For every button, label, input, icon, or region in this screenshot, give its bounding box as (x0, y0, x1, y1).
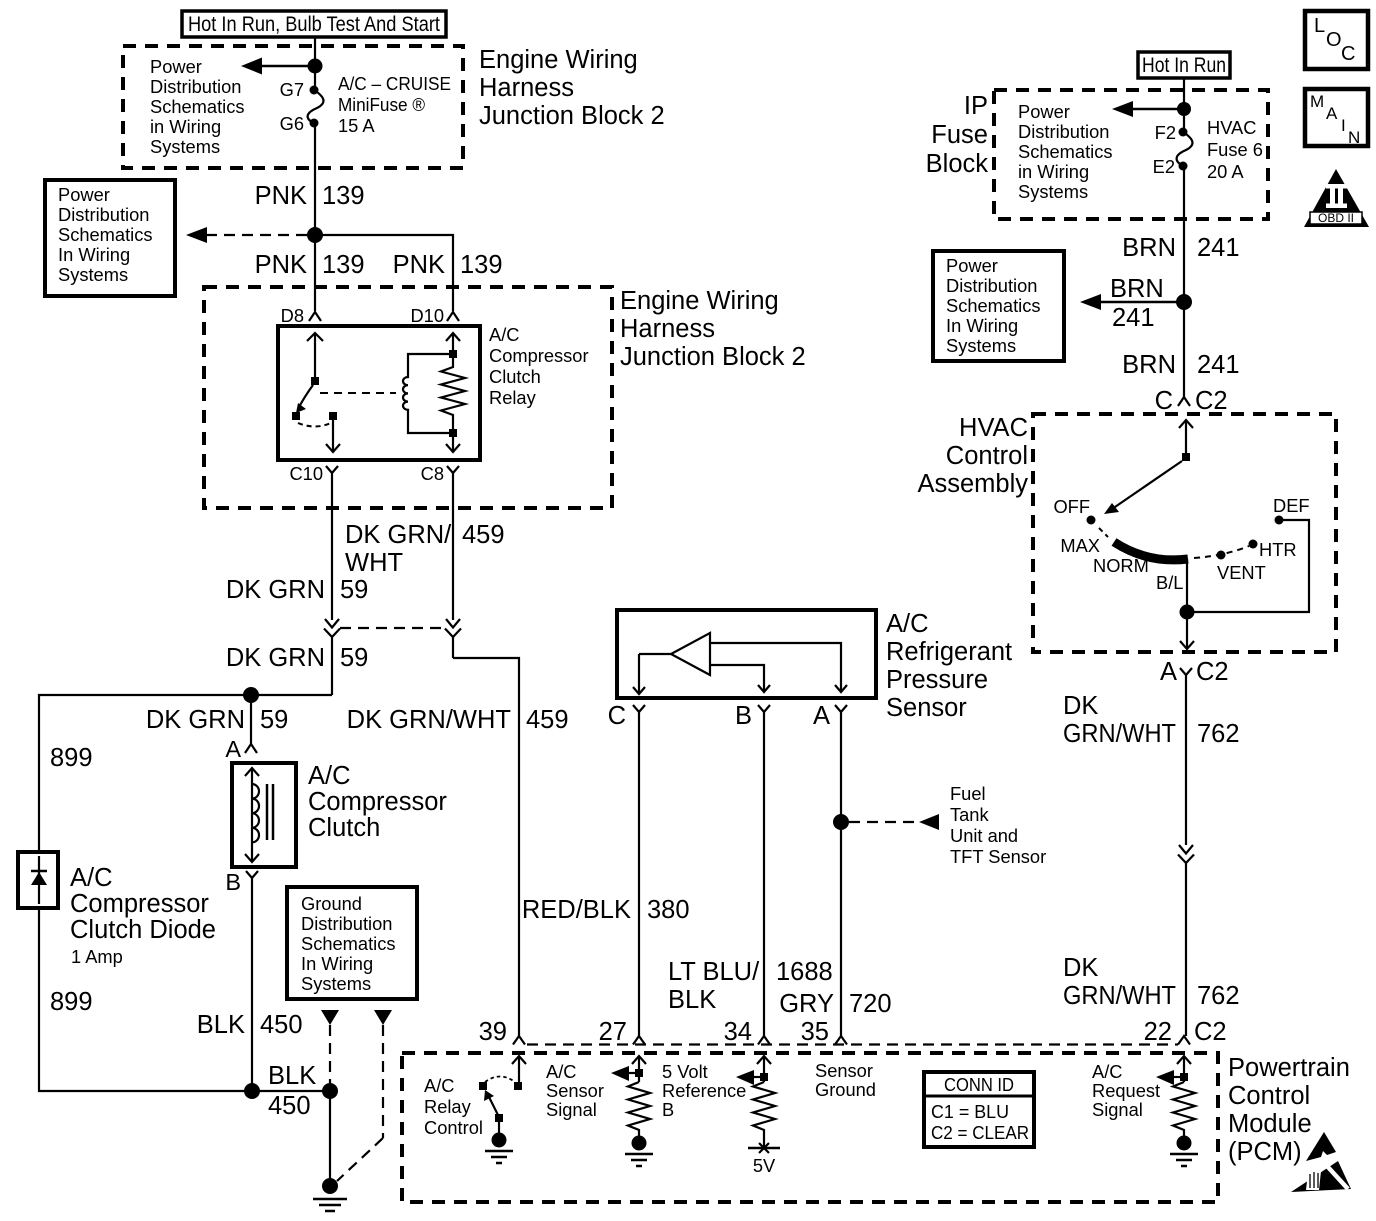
label LT BLU/BLK 1688 (668, 958, 833, 1014)
junction node PNK splice (307, 227, 323, 243)
node A/C Sensor Signal label (546, 1061, 604, 1120)
junction at fuse feed (308, 59, 323, 74)
svg-text:A: A (1326, 104, 1338, 123)
svg-text:Hot In Run, Bulb Test And Star: Hot In Run, Bulb Test And Start (188, 13, 440, 36)
svg-text:Distribution: Distribution (58, 204, 149, 225)
fuse value label A/C-CRUISE MiniFuse 15 A (338, 73, 451, 136)
svg-text:Pressure: Pressure (886, 666, 988, 694)
label RED/BLK 380 (522, 896, 690, 924)
node Hot In Run, Bulb Test And Start (182, 11, 446, 37)
svg-text:139: 139 (460, 251, 503, 279)
relay switch arm D8 side (292, 333, 396, 452)
wire Hot In Run down (1183, 78, 1185, 109)
svg-text:Control: Control (946, 442, 1028, 470)
HVAC selector wiper arm (1104, 461, 1182, 514)
svg-text:F2: F2 (1155, 122, 1176, 143)
svg-text:D8: D8 (281, 305, 304, 326)
svg-text:PNK: PNK (393, 251, 445, 279)
node Sensor Ground label (815, 1060, 876, 1100)
dashed wire right ground feed (382, 1025, 384, 1138)
svg-text:In Wiring: In Wiring (301, 953, 373, 974)
svg-text:C8: C8 (421, 463, 444, 484)
svg-text:C2 = CLEAR: C2 = CLEAR (931, 1122, 1029, 1143)
junction block 1 dashed box (Engine Wiring Harness Junction Block 2) (123, 46, 463, 168)
pin 22 (1144, 1018, 1227, 1046)
HVAC selector feed wire (1179, 420, 1193, 461)
node A/C Request Signal label (1092, 1061, 1160, 1120)
diode CR1 A/C Compressor Clutch Diode (18, 852, 58, 908)
svg-text:BLK: BLK (668, 986, 716, 1014)
junction at HVAC fuse feed (1177, 102, 1191, 116)
svg-text:Systems: Systems (58, 264, 128, 285)
svg-text:A/C: A/C (1092, 1061, 1122, 1082)
svg-text:in Wiring: in Wiring (150, 116, 221, 137)
pin D10 (410, 305, 459, 326)
pin A of sensor (813, 702, 847, 730)
label PNK 139 left branch (255, 251, 365, 279)
svg-text:PNK: PNK (255, 182, 307, 210)
node Engine Wiring Harness Junction Block 2 label (relay) (620, 287, 806, 371)
label DK GRN/ WHT 459 (345, 521, 505, 577)
svg-text:(PCM): (PCM) (1228, 1138, 1302, 1166)
wire splice to clutch pin A (250, 695, 252, 744)
svg-text:In Wiring: In Wiring (946, 315, 1018, 336)
svg-text:L: L (1314, 15, 1325, 37)
svg-text:Tank: Tank (950, 804, 989, 825)
svg-text:A/C: A/C (70, 864, 113, 892)
svg-text:Distribution: Distribution (301, 913, 392, 934)
wire from Hot In Run to junction (314, 37, 316, 66)
svg-text:C1 = BLU: C1 = BLU (931, 1101, 1009, 1122)
node CONN ID table (924, 1072, 1034, 1147)
svg-text:Engine Wiring: Engine Wiring (620, 287, 779, 315)
sensor internal wire to pin B (710, 665, 770, 692)
svg-text:WHT: WHT (345, 549, 403, 577)
sensor internal wire to pin C (633, 654, 671, 694)
svg-text:35: 35 (801, 1018, 829, 1046)
label GRY 720 (779, 990, 891, 1018)
svg-text:5 Volt: 5 Volt (662, 1061, 708, 1082)
svg-text:OFF: OFF (1053, 496, 1090, 517)
svg-text:20 A: 20 A (1207, 161, 1244, 182)
node Power Distribution Schematics in Wiring Systems (in IP fuse block) (1018, 101, 1113, 202)
node A/C Compressor Clutch Relay label (489, 324, 589, 408)
svg-text:Request: Request (1092, 1080, 1160, 1101)
svg-text:22: 22 (1144, 1018, 1172, 1046)
svg-text:Sensor: Sensor (815, 1060, 873, 1081)
label BRN 241 upper (1122, 234, 1239, 262)
sensor internal amplifier triangle (671, 633, 710, 675)
svg-text:A/C: A/C (886, 610, 929, 638)
svg-text:Fuel: Fuel (950, 783, 986, 804)
svg-text:LT BLU/: LT BLU/ (668, 958, 760, 986)
svg-text:Signal: Signal (546, 1099, 597, 1120)
label DK GRN 59 at splice (146, 706, 289, 734)
svg-text:Control: Control (1228, 1082, 1310, 1110)
svg-text:Schematics: Schematics (58, 224, 153, 245)
svg-text:C2: C2 (1195, 387, 1228, 415)
svg-text:Reference: Reference (662, 1080, 746, 1101)
wire PNK 139 down (314, 123, 316, 235)
svg-text:HVAC: HVAC (1207, 117, 1256, 138)
node ESD symbol (1291, 1132, 1351, 1192)
relay coil (403, 354, 449, 433)
wire to ground (329, 1091, 331, 1182)
contact VENT (1217, 551, 1226, 560)
label DK GRN/WHT 762 lower (1063, 954, 1240, 1010)
svg-text:Systems: Systems (301, 973, 371, 994)
node A/C Relay Control label (424, 1075, 483, 1138)
svg-text:241: 241 (1112, 304, 1155, 332)
pin A of C2 connector (1160, 658, 1229, 686)
svg-text:IP: IP (964, 92, 988, 120)
svg-text:450: 450 (260, 1011, 303, 1039)
svg-text:59: 59 (340, 576, 368, 604)
svg-text:Compressor: Compressor (489, 345, 589, 366)
svg-text:A/C: A/C (424, 1075, 454, 1096)
svg-text:C: C (608, 702, 626, 730)
svg-text:DK: DK (1063, 692, 1098, 720)
node A/C Compressor Clutch Diode label (70, 864, 216, 967)
svg-text:Engine Wiring: Engine Wiring (479, 46, 638, 74)
dashed arc B/L to HTR (1194, 546, 1249, 558)
dashed tick OFF to MAX (1099, 528, 1108, 537)
label BRN 241 at arrow (1110, 275, 1164, 332)
wire B to pin 34 (763, 719, 765, 1036)
contact strip MAX-NORM-BL thick arc (1114, 542, 1188, 560)
svg-text:Distribution: Distribution (1018, 121, 1109, 142)
svg-text:HVAC: HVAC (959, 414, 1028, 442)
HVAC Control Assembly dashed box (1033, 414, 1336, 652)
node Power Distribution Schematics In Wiring Systems box (right) (933, 251, 1064, 361)
svg-text:BLK: BLK (268, 1062, 316, 1090)
svg-text:VENT: VENT (1217, 562, 1266, 583)
inline connector on C10 wire (324, 619, 340, 695)
pin 34 (724, 1018, 770, 1046)
node Power Distribution Schematics in Wiring Systems (in fuse box 1) (150, 56, 245, 157)
junction node on wire A (833, 814, 849, 830)
node Engine Wiring Harness Junction Block 2 label (top) (479, 46, 665, 130)
svg-text:899: 899 (50, 988, 93, 1016)
svg-text:Distribution: Distribution (150, 76, 241, 97)
label BRN 241 lower (1122, 351, 1239, 379)
svg-text:RED/BLK: RED/BLK (522, 896, 631, 924)
svg-text:Harness: Harness (479, 74, 574, 102)
svg-text:OBD II: OBD II (1318, 211, 1354, 225)
label PNK 139 (255, 182, 365, 210)
wire arrow to power distribution (241, 58, 315, 75)
svg-text:Signal: Signal (1092, 1099, 1143, 1120)
sensor B1 A/C Refrigerant Pressure Sensor box (617, 610, 876, 698)
svg-text:Junction Block 2: Junction Block 2 (479, 102, 665, 130)
svg-text:241: 241 (1197, 351, 1240, 379)
svg-text:DK GRN: DK GRN (226, 644, 325, 672)
wire arrow to power distribution (right) (1112, 101, 1184, 117)
svg-text:Relay: Relay (424, 1096, 472, 1117)
svg-text:DK GRN/: DK GRN/ (345, 521, 452, 549)
svg-text:NORM: NORM (1093, 555, 1149, 576)
IP Fuse Block dashed box (994, 90, 1268, 219)
label BLK 450 upper (197, 1011, 303, 1039)
pin A of clutch (225, 736, 257, 762)
label DK GRN 59 lower (226, 644, 369, 672)
svg-text:Schematics: Schematics (1018, 141, 1113, 162)
svg-text:Refrigerant: Refrigerant (886, 638, 1012, 666)
svg-text:CONN ID: CONN ID (944, 1074, 1014, 1095)
pin C10 (289, 463, 338, 484)
svg-text:TFT Sensor: TFT Sensor (950, 846, 1046, 867)
svg-text:Distribution: Distribution (946, 275, 1037, 296)
svg-text:Compressor: Compressor (308, 788, 447, 816)
svg-text:C: C (1155, 387, 1173, 415)
svg-text:A: A (225, 736, 241, 762)
svg-text:M: M (1310, 92, 1324, 111)
svg-text:Control: Control (424, 1117, 483, 1138)
svg-text:DK GRN: DK GRN (146, 706, 245, 734)
svg-text:Schematics: Schematics (150, 96, 245, 117)
wire BRN down (1183, 166, 1185, 302)
svg-text:A/C: A/C (308, 762, 351, 790)
svg-text:In Wiring: In Wiring (58, 244, 130, 265)
label DK GRN/WHT 459 lower (347, 706, 569, 734)
PCM connector dashed line (527, 1043, 1178, 1045)
ground G101 (313, 1178, 347, 1211)
ground distribution arrow left (321, 1010, 339, 1025)
wire DK GRN to splice (39, 695, 332, 852)
node A/C Refrigerant Pressure Sensor label (886, 610, 1012, 722)
PCM dashed box (402, 1053, 1218, 1202)
pin 35 (801, 1018, 847, 1046)
svg-text:Power: Power (150, 56, 202, 77)
svg-text:Harness: Harness (620, 315, 715, 343)
wire C10 down (331, 480, 333, 620)
pin B of sensor (735, 702, 770, 730)
contact DEF (1275, 516, 1284, 525)
node Power Distribution Schematics In Wiring Systems box (left) (45, 180, 175, 296)
wire arrow BRN to power distribution box (1080, 294, 1184, 310)
node OBD II icon (1304, 169, 1369, 227)
svg-text:B: B (225, 869, 241, 895)
svg-text:Ground: Ground (301, 893, 362, 914)
svg-text:DK: DK (1063, 954, 1098, 982)
svg-text:Clutch: Clutch (308, 814, 380, 842)
svg-text:720: 720 (849, 990, 892, 1018)
svg-text:459: 459 (462, 521, 505, 549)
svg-text:Module: Module (1228, 1110, 1312, 1138)
svg-text:1688: 1688 (776, 958, 833, 986)
pin 27 (599, 1018, 645, 1046)
svg-text:139: 139 (322, 251, 365, 279)
svg-text:A/C – CRUISE: A/C – CRUISE (338, 73, 451, 94)
node MAIN icon (1305, 89, 1368, 147)
svg-text:A/C: A/C (546, 1061, 576, 1082)
svg-text:762: 762 (1197, 720, 1240, 748)
svg-text:34: 34 (724, 1018, 752, 1046)
svg-text:C2: C2 (1194, 1018, 1227, 1046)
svg-text:E2: E2 (1153, 156, 1175, 177)
svg-text:DK GRN/WHT: DK GRN/WHT (347, 706, 511, 734)
svg-text:450: 450 (268, 1092, 311, 1120)
inline connector on 762 wire (1178, 845, 1194, 1036)
junction node DK GRN splice (243, 687, 259, 703)
A/C Compressor Clutch coil (232, 763, 296, 867)
svg-text:Sensor: Sensor (886, 694, 967, 722)
svg-text:G7: G7 (280, 79, 304, 100)
svg-text:Systems: Systems (150, 136, 220, 157)
fuse F2 HVAC Fuse 6 20A (1177, 109, 1193, 171)
svg-text:GRN/WHT: GRN/WHT (1063, 720, 1176, 748)
svg-text:Schematics: Schematics (301, 933, 396, 954)
wire BRN splice to C2 connector (1183, 302, 1185, 397)
svg-text:GRN/WHT: GRN/WHT (1063, 982, 1176, 1010)
dashed wire with arrow to Power Distribution box (186, 227, 307, 243)
svg-text:C10: C10 (289, 463, 323, 484)
svg-text:Relay: Relay (489, 387, 537, 408)
svg-text:27: 27 (599, 1018, 627, 1046)
pin C8 (421, 463, 459, 484)
svg-text:O: O (1326, 29, 1342, 51)
svg-text:Hot In Run: Hot In Run (1142, 54, 1226, 77)
svg-text:59: 59 (340, 644, 368, 672)
svg-text:Clutch Diode: Clutch Diode (70, 916, 216, 944)
svg-text:Systems: Systems (946, 335, 1016, 356)
junction node BLK splice at B (244, 1083, 260, 1099)
svg-text:Power: Power (946, 255, 998, 276)
node Ground Distribution Schematics In Wiring Systems box (287, 887, 417, 999)
wire splice to D8 (314, 235, 316, 311)
svg-text:A: A (813, 702, 830, 730)
svg-text:B/L: B/L (1156, 572, 1183, 593)
HVAC output wire with arrow (1180, 612, 1194, 649)
node LOC icon (1305, 11, 1368, 69)
wire C8 down (452, 480, 454, 620)
junction block 2 dashed box (relay housing) (204, 287, 612, 508)
svg-text:HTR: HTR (1259, 539, 1297, 560)
node IP Fuse Block label (926, 92, 989, 178)
node 5 Volt Reference B label (662, 1061, 746, 1120)
label DK GRN/WHT 762 upper (1063, 692, 1240, 748)
svg-text:Block: Block (926, 150, 989, 178)
svg-text:Powertrain: Powertrain (1228, 1054, 1350, 1082)
svg-text:BRN: BRN (1122, 234, 1176, 262)
dashed wire diagonal to ground (337, 1138, 383, 1181)
svg-text:Power: Power (1018, 101, 1070, 122)
svg-text:Compressor: Compressor (70, 890, 209, 918)
wire branch to D10 (315, 235, 453, 311)
svg-text:Junction Block 2: Junction Block 2 (620, 343, 806, 371)
svg-text:762: 762 (1197, 982, 1240, 1010)
svg-text:MAX: MAX (1060, 535, 1100, 556)
dashed wire to Fuel Tank Unit (849, 814, 939, 830)
ground distribution arrow right (374, 1010, 392, 1025)
svg-text:A: A (1160, 658, 1177, 686)
junction node BRN splice (1176, 294, 1192, 310)
node Powertrain Control Module (PCM) label (1228, 1054, 1350, 1166)
svg-text:GRY: GRY (779, 990, 834, 1018)
fuse value label HVAC Fuse 6 20 A (1207, 117, 1263, 182)
svg-text:Power: Power (58, 184, 110, 205)
svg-text:39: 39 (479, 1018, 507, 1046)
svg-text:MiniFuse ®: MiniFuse ® (338, 94, 425, 115)
wire B/L to output (1186, 559, 1188, 612)
svg-text:BRN: BRN (1110, 275, 1164, 303)
dashed wire left ground feed (329, 1025, 331, 1083)
svg-text:DEF: DEF (1273, 495, 1310, 516)
wire DEF to output (1187, 520, 1309, 612)
pin D8 (281, 305, 321, 326)
svg-text:5V: 5V (753, 1155, 776, 1176)
svg-text:899: 899 (50, 744, 93, 772)
wire diode to BLK splice (39, 908, 252, 1091)
label PNK 139 right branch (393, 251, 503, 279)
inline connector on C8 wire (445, 619, 461, 658)
svg-text:Fuse 6: Fuse 6 (1207, 139, 1263, 160)
svg-text:1 Amp: 1 Amp (71, 946, 123, 967)
wire C to pin 27 (638, 719, 640, 1036)
svg-text:C: C (1341, 43, 1355, 65)
svg-text:Unit and: Unit and (950, 825, 1018, 846)
svg-text:PNK: PNK (255, 251, 307, 279)
relay resistor (441, 333, 465, 452)
wire A to pin 35 (840, 719, 842, 1036)
A/C relay control driver in PCM (479, 1056, 526, 1163)
junction node ground splice (322, 1083, 338, 1099)
pin C of C2 connector (1155, 387, 1228, 415)
svg-text:59: 59 (260, 706, 288, 734)
svg-text:N: N (1348, 128, 1360, 147)
svg-text:Ground: Ground (815, 1079, 876, 1100)
svg-text:Schematics: Schematics (946, 295, 1041, 316)
node Hot In Run (right) (1138, 52, 1230, 78)
svg-text:DK GRN: DK GRN (226, 576, 325, 604)
label DK GRN 59 upper (226, 576, 369, 604)
svg-text:241: 241 (1197, 234, 1240, 262)
svg-text:B: B (662, 1099, 674, 1120)
junction node HVAC output (1180, 605, 1195, 620)
node HVAC Control Assembly label (917, 414, 1028, 498)
A/C request signal input in PCM (1156, 1056, 1198, 1166)
pin C of sensor (608, 702, 645, 730)
pin 39 (479, 1018, 525, 1046)
node A/C Compressor Clutch label (308, 762, 447, 842)
svg-text:D10: D10 (410, 305, 444, 326)
A/C sensor signal input in PCM (611, 1056, 653, 1166)
5 volt reference pull-up in PCM (736, 1056, 780, 1153)
svg-text:Assembly: Assembly (917, 470, 1028, 498)
contact OFF (1087, 516, 1096, 525)
wire C8 to 459 run (453, 658, 519, 1036)
svg-text:Clutch: Clutch (489, 366, 541, 387)
svg-text:459: 459 (526, 706, 569, 734)
svg-text:Sensor: Sensor (546, 1080, 604, 1101)
svg-text:in Wiring: in Wiring (1018, 161, 1089, 182)
svg-text:I: I (1341, 116, 1346, 135)
svg-text:G6: G6 (280, 113, 304, 134)
fuse F1 A/C-CRUISE MiniFuse 15A (308, 66, 324, 128)
svg-text:BRN: BRN (1122, 351, 1176, 379)
node Fuel Tank Unit and TFT Sensor label (950, 783, 1046, 867)
relay K1 A/C Compressor Clutch Relay box (278, 326, 480, 460)
svg-text:A/C: A/C (489, 324, 519, 345)
wire DK GRN/WHT 762 upper (1185, 682, 1187, 845)
label BLK 450 at splice (268, 1062, 316, 1120)
svg-text:C2: C2 (1196, 658, 1229, 686)
sensor internal wire to pin A (710, 643, 847, 692)
wire BLK to ground junction (252, 1090, 330, 1092)
svg-text:139: 139 (322, 182, 365, 210)
dashed connector link line (340, 627, 445, 629)
svg-text:BLK: BLK (197, 1011, 245, 1039)
